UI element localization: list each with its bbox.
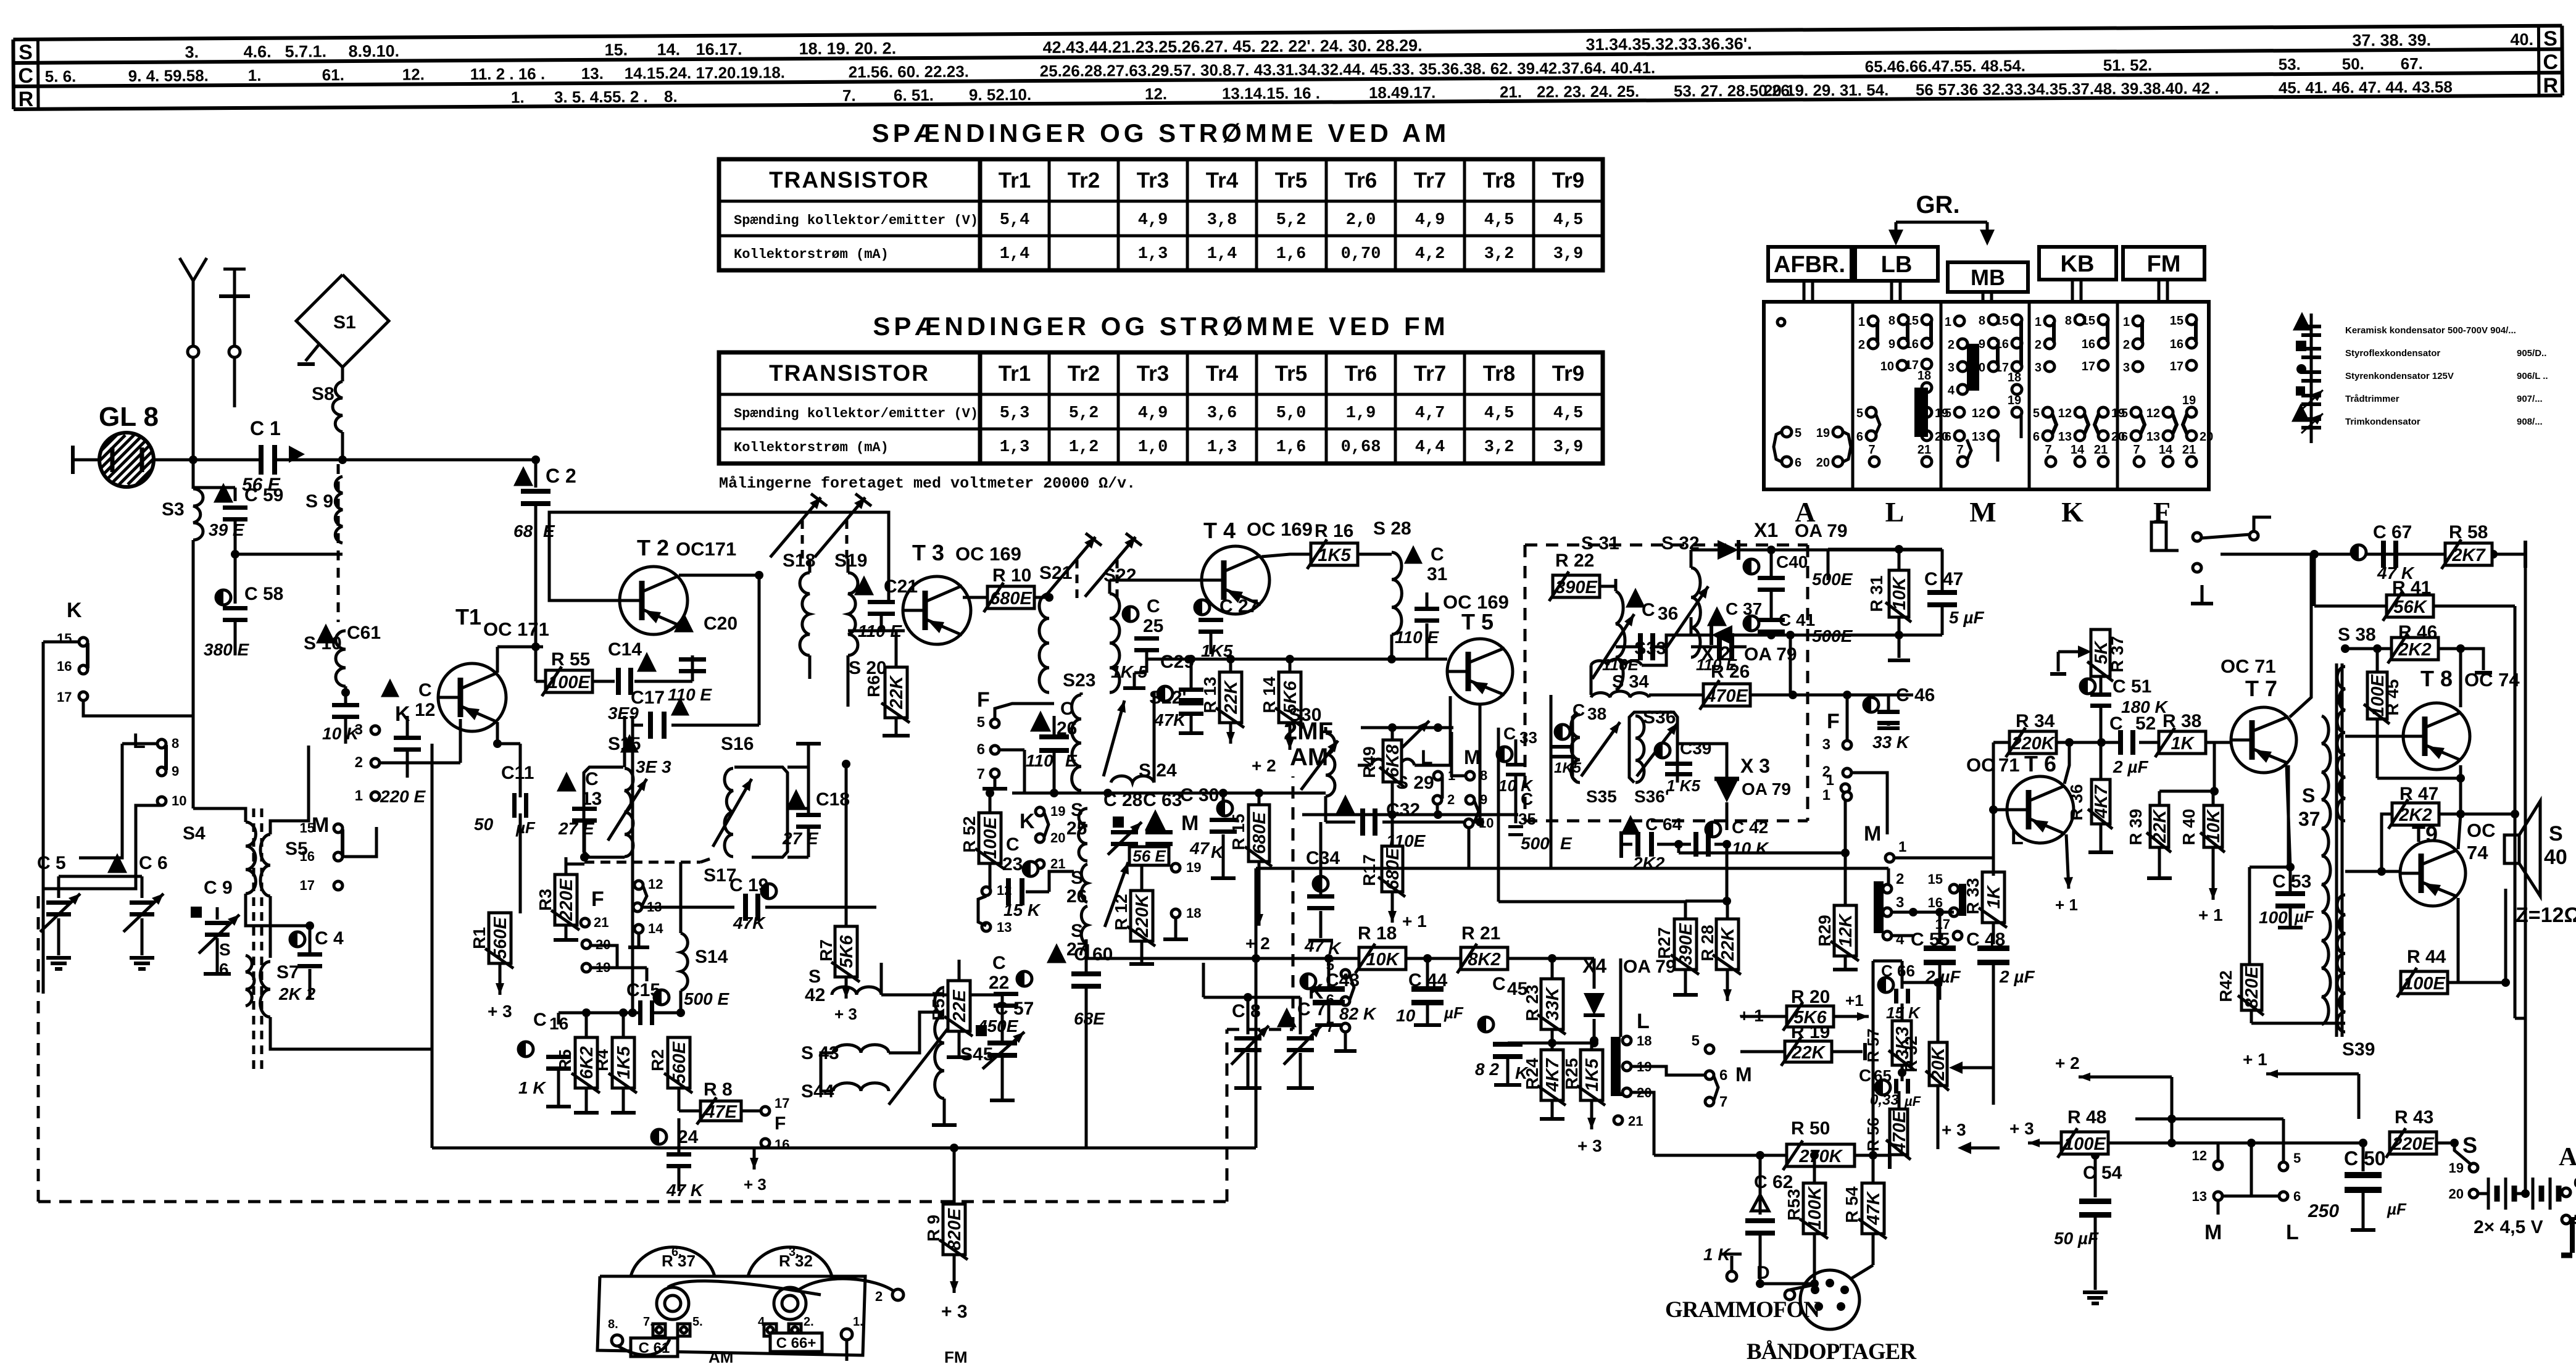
coil S7: [260, 962, 270, 1017]
T2 base wire from C14: [654, 680, 692, 683]
svg-text:6: 6: [2574, 1175, 2576, 1190]
svg-text:12: 12: [415, 700, 435, 720]
svg-text:AM: AM: [708, 1348, 733, 1364]
T2 collector wire right: [679, 574, 759, 577]
svg-text:Målingerne foretaget med voltm: Målingerne foretaget med voltmeter 20000…: [719, 475, 1136, 492]
svg-text:52: 52: [2135, 713, 2156, 734]
svg-text:0,33: 0,33: [1870, 1092, 1899, 1108]
svg-text:18.49.17.: 18.49.17.: [1369, 83, 1436, 102]
dashed core S9/S10: [337, 464, 340, 622]
svg-text:Trimkondensator: Trimkondensator: [2345, 417, 2420, 427]
svg-text:3: 3: [355, 721, 363, 738]
svg-text:220E: 220E: [557, 878, 576, 921]
capacitor C36: [1628, 591, 1643, 606]
svg-text:BÅNDOPTAGER: BÅNDOPTAGER: [1747, 1339, 1917, 1364]
transformer S37 core: [2335, 663, 2338, 1037]
svg-text:390E: 390E: [1676, 922, 1696, 965]
svg-text:30. 28.29.: 30. 28.29.: [1348, 36, 1422, 56]
svg-text:C: C: [2543, 51, 2558, 74]
jack symbol: [2201, 585, 2204, 602]
svg-text:68E: 68E: [1074, 1009, 1105, 1028]
svg-text:45: 45: [1507, 979, 1527, 999]
dashed link S15-S17: [584, 861, 700, 864]
svg-text:C 64: C 64: [1645, 815, 1682, 834]
tuning capacitor C6: [110, 857, 125, 871]
svg-text:15: 15: [1905, 314, 1919, 328]
wire C59-C58: [234, 521, 237, 604]
svg-text:C: C: [1147, 596, 1160, 617]
svg-text:GRAMMOFON: GRAMMOFON: [1665, 1297, 1820, 1323]
svg-text:40: 40: [2544, 846, 2567, 869]
T1 base wire: [380, 762, 460, 765]
bar left label cells: [36, 39, 40, 109]
svg-text:+ 1: + 1: [1402, 912, 1427, 931]
wire contact 4 right: [1892, 934, 1913, 937]
svg-text:3E 3: 3E 3: [636, 757, 671, 776]
svg-text:68: 68: [513, 521, 533, 541]
svg-text:C39: C39: [1680, 739, 1711, 758]
svg-text:22K: 22K: [1718, 926, 1738, 961]
svg-text:OC 71: OC 71: [2221, 655, 2276, 677]
svg-text:3,2: 3,2: [1484, 245, 1514, 264]
svg-text:500E: 500E: [1812, 570, 1853, 589]
contacts 5 6 bottom: [2279, 1162, 2288, 1171]
svg-text:1: 1: [1822, 787, 1830, 804]
svg-text:19: 19: [1816, 426, 1830, 440]
svg-text:S16: S16: [721, 734, 754, 754]
svg-text:R 12: R 12: [1111, 894, 1131, 930]
svg-text:C 51: C 51: [2113, 676, 2151, 697]
svg-text:12: 12: [2058, 407, 2072, 420]
svg-text:S: S: [19, 41, 33, 64]
svg-text:18: 18: [1917, 369, 1931, 383]
svg-text:27 E: 27 E: [782, 829, 819, 848]
svg-text:7: 7: [1868, 443, 1875, 457]
switch box stems: [1803, 281, 1806, 302]
wires bottom contact group: [2217, 1143, 2220, 1161]
capacitor C12: [383, 682, 397, 696]
svg-text:C 67: C 67: [2373, 522, 2412, 542]
svg-text:MB: MB: [1971, 265, 2005, 290]
svg-text:3,8: 3,8: [1207, 211, 1237, 230]
svg-text:R 20: R 20: [1791, 987, 1830, 1007]
svg-text:22. 23. 24. 25.: 22. 23. 24. 25.: [1537, 82, 1639, 101]
svg-text:13: 13: [2058, 430, 2072, 444]
svg-text:100: 100: [2259, 908, 2288, 927]
svg-text:13: 13: [997, 920, 1012, 935]
svg-text:Tr1: Tr1: [999, 168, 1031, 193]
svg-text:C 59: C 59: [244, 485, 283, 505]
svg-text:C 53: C 53: [2272, 871, 2311, 892]
svg-text:13.: 13.: [581, 64, 604, 83]
wire speaker riser: [2514, 606, 2517, 814]
svg-text:R 32: R 32: [1901, 1036, 1921, 1072]
svg-text:FM: FM: [2147, 251, 2181, 277]
svg-text:17: 17: [775, 1095, 789, 1111]
svg-text:C 30: C 30: [1180, 785, 1219, 805]
vertical bus x1025: [631, 716, 634, 1013]
svg-text:31.34.35.32.33.36.36'.: 31.34.35.32.33.36.36'.: [1585, 35, 1751, 54]
svg-text:4,4: 4,4: [1415, 438, 1445, 457]
svg-text:1,0: 1,0: [1138, 438, 1168, 457]
svg-text:R 10: R 10: [992, 565, 1031, 586]
svg-text:12: 12: [997, 883, 1012, 898]
svg-text:14.: 14.: [657, 40, 680, 59]
svg-text:Tr7: Tr7: [1414, 362, 1447, 386]
svg-text:907/...: 907/...: [2517, 394, 2543, 404]
svg-text:C 58: C 58: [244, 584, 283, 604]
svg-text:37. 38. 39.: 37. 38. 39.: [2352, 31, 2431, 50]
svg-text:820E: 820E: [2242, 965, 2262, 1008]
transistor T3: [903, 576, 971, 644]
svg-text:220K: 220K: [1132, 893, 1152, 937]
svg-text:4,5: 4,5: [1553, 211, 1584, 230]
svg-text:10K: 10K: [1890, 576, 1909, 610]
wire S3 down: [192, 540, 195, 808]
svg-text:M: M: [1969, 496, 1996, 528]
wire top bus right section: [2221, 553, 2493, 556]
bar right label cells: [2537, 26, 2541, 96]
svg-text:13: 13: [2192, 1189, 2207, 1204]
svg-text:1: 1: [1945, 315, 1951, 329]
pot shafts: [657, 1287, 689, 1319]
svg-text:18. 19. 20. 2.: 18. 19. 20. 2.: [799, 39, 896, 58]
wire down from T1 emitter: [519, 744, 522, 797]
svg-text:6K8: 6K8: [1383, 744, 1403, 778]
svg-text:25: 25: [1066, 818, 1087, 839]
svg-text:C: C: [418, 680, 432, 700]
svg-text:22E: 22E: [950, 989, 970, 1023]
svg-text:37: 37: [2298, 808, 2320, 830]
svg-text:100E: 100E: [981, 816, 1000, 858]
svg-text:26: 26: [1066, 886, 1087, 907]
battery cells: [2478, 1192, 2487, 1195]
svg-text:220K: 220K: [2011, 734, 2055, 754]
switch section dividers: [1851, 302, 1855, 489]
svg-text:5,4: 5,4: [1000, 211, 1030, 230]
svg-text:R 54: R 54: [1842, 1186, 1861, 1223]
svg-text:5: 5: [2293, 1150, 2301, 1166]
svg-text:S19: S19: [834, 551, 867, 571]
svg-text:11. 2 . 16 .: 11. 2 . 16 .: [470, 64, 546, 83]
svg-text:R: R: [2543, 74, 2559, 98]
svg-text:1: 1: [2035, 315, 2042, 329]
svg-text:560E: 560E: [491, 916, 510, 958]
svg-text:R 50: R 50: [1791, 1118, 1830, 1139]
svg-text:4.: 4.: [758, 1315, 768, 1329]
svg-text:5: 5: [2121, 407, 2128, 420]
section M contacts: [1955, 316, 1964, 326]
wire long bottom bus: [432, 1147, 1256, 1150]
svg-text:14.15.24. 17.20.19.18.: 14.15.24. 17.20.19.18.: [625, 63, 785, 82]
svg-text:1,6: 1,6: [1276, 438, 1307, 457]
svg-text:17: 17: [57, 689, 72, 705]
svg-text:S: S: [2302, 784, 2315, 807]
svg-text:5K6: 5K6: [1793, 1008, 1827, 1028]
svg-text:R 55: R 55: [551, 649, 590, 670]
svg-text:2 µF: 2 µF: [1999, 967, 2035, 986]
svg-text:25.26.28.27.63.29.57. 30.8.7.: 25.26.28.27.63.29.57. 30.8.7. 43.31.34.3…: [1040, 59, 1656, 80]
svg-text:270K: 270K: [1798, 1147, 1843, 1166]
svg-text:L: L: [2286, 1221, 2299, 1244]
svg-text:R 16: R 16: [1315, 521, 1353, 541]
pot wires: [668, 1281, 821, 1295]
svg-text:8: 8: [172, 736, 179, 751]
svg-text:SPÆNDINGER OG STRØMME VED: SPÆNDINGER OG STRØMME VED AM: [872, 118, 1450, 148]
svg-text:20: 20: [1050, 830, 1065, 846]
svg-text:L: L: [1885, 496, 1905, 528]
baandoptager DIN socket: [1800, 1270, 1859, 1329]
svg-text:E: E: [1560, 834, 1573, 853]
svg-text:R1: R1: [470, 927, 489, 949]
svg-text:0,68: 0,68: [1341, 438, 1381, 457]
svg-text:+ 1: + 1: [2243, 1050, 2267, 1069]
svg-text:T 8: T 8: [2420, 666, 2453, 691]
svg-text:5K6: 5K6: [837, 935, 857, 968]
svg-text:D: D: [1756, 1263, 1770, 1283]
svg-text:22K: 22K: [887, 675, 907, 709]
svg-text:14: 14: [648, 921, 663, 936]
svg-text:OC 169: OC 169: [1247, 518, 1313, 540]
GR bracket with arrows: [1895, 222, 1898, 241]
T6 emitter arrow: [2066, 834, 2069, 889]
wire S16 to dashed: [700, 858, 713, 862]
contact 18 mid: [1171, 909, 1180, 918]
svg-text:1.: 1.: [853, 1315, 863, 1329]
coil S18: [801, 520, 804, 560]
capacitor C37: [1710, 610, 1724, 625]
svg-text:F: F: [977, 688, 990, 712]
svg-text:6: 6: [2033, 430, 2040, 444]
rail R39 R40: [2159, 790, 2214, 793]
wire K to C8 bus: [1248, 996, 1300, 999]
svg-text:SPÆNDINGER OG STRØMME VED: SPÆNDINGER OG STRØMME VED FM: [873, 312, 1448, 341]
transistor T7: [2231, 707, 2296, 773]
svg-text:100E: 100E: [2064, 1134, 2106, 1154]
svg-text:OC 169: OC 169: [1443, 591, 1509, 613]
svg-text:680E: 680E: [1250, 811, 1269, 854]
svg-text:C 9: C 9: [204, 878, 233, 898]
svg-text:GR.: GR.: [1916, 191, 1959, 218]
contacts 12 13 bottom: [2214, 1161, 2222, 1170]
svg-text:82 K: 82 K: [1339, 1004, 1377, 1023]
svg-text:50.: 50.: [2342, 54, 2364, 73]
table row lines: [719, 393, 1603, 396]
pot C61 box: [631, 1338, 678, 1357]
svg-text:2K2: 2K2: [2398, 640, 2431, 660]
svg-text:C 46: C 46: [1896, 685, 1935, 705]
svg-text:C: C: [1503, 724, 1516, 743]
svg-text:Tr8: Tr8: [1483, 362, 1516, 386]
svg-text:10: 10: [1880, 360, 1894, 373]
svg-text:Tr5: Tr5: [1275, 362, 1308, 386]
svg-text:X1: X1: [1754, 519, 1778, 541]
svg-text:5 µF: 5 µF: [1949, 608, 1984, 627]
svg-text:4,9: 4,9: [1138, 404, 1168, 423]
svg-text:Tr3: Tr3: [1137, 362, 1170, 386]
contact 19 mid: [1171, 863, 1180, 872]
svg-text:47E: 47E: [704, 1102, 737, 1122]
svg-text:220E: 220E: [2391, 1134, 2435, 1154]
svg-text:27 E: 27 E: [558, 819, 595, 838]
svg-text:X 3: X 3: [1740, 755, 1770, 777]
svg-text:FM: FM: [944, 1348, 968, 1364]
svg-text:F: F: [1827, 710, 1840, 733]
wire C59 node to S9: [235, 553, 343, 556]
svg-text:C18: C18: [816, 789, 850, 810]
svg-text:12: 12: [2146, 407, 2160, 420]
svg-text:+ 3: + 3: [2009, 1119, 2034, 1138]
svg-text:3: 3: [2035, 361, 2042, 375]
svg-text:S1: S1: [333, 312, 356, 333]
svg-text:C: C: [585, 769, 599, 789]
main dashed box FM section: [37, 896, 40, 1202]
svg-text:5: 5: [1856, 407, 1863, 420]
svg-text:50: 50: [474, 815, 494, 834]
svg-text:OA 79: OA 79: [1742, 779, 1791, 799]
svg-text:4,9: 4,9: [1415, 211, 1445, 230]
antenna terminal: [188, 346, 199, 357]
svg-text:19: 19: [2449, 1160, 2464, 1176]
left area wiring: [83, 700, 193, 716]
svg-text:AM: AM: [1290, 744, 1328, 771]
svg-text:5: 5: [977, 714, 985, 731]
svg-text:+1: +1: [1845, 991, 1864, 1010]
svg-text:L: L: [1637, 1010, 1650, 1033]
table frame: [719, 352, 1603, 463]
svg-text:+ 2: + 2: [2055, 1053, 2080, 1073]
svg-text:Tr6: Tr6: [1345, 168, 1377, 193]
svg-text:22K: 22K: [1221, 679, 1241, 714]
svg-text:C: C: [1060, 699, 1074, 719]
svg-text:C61: C61: [347, 623, 381, 643]
capacitor C20: [676, 616, 691, 631]
svg-text:M: M: [1181, 812, 1199, 835]
capacitor C2: [516, 470, 531, 484]
svg-text:1 K: 1 K: [518, 1078, 546, 1097]
svg-text:OC 169: OC 169: [955, 543, 1021, 565]
svg-text:15: 15: [2170, 314, 2183, 328]
svg-text:21: 21: [2182, 443, 2196, 457]
arrow +3 bottom left: [753, 1149, 756, 1170]
svg-text:6: 6: [1719, 1067, 1727, 1084]
resistor R37 5K: [2091, 629, 2110, 676]
svg-text:47 K: 47 K: [666, 1181, 704, 1200]
svg-text:µF: µF: [1444, 1003, 1464, 1022]
wire S10 to C61 node: [344, 686, 347, 704]
svg-text:470E: 470E: [1705, 686, 1748, 706]
legend keramisk kondensator symbol: [2295, 315, 2309, 329]
coil S8: [341, 367, 344, 381]
svg-text:A: A: [2559, 1143, 2576, 1171]
svg-text:S35: S35: [1586, 787, 1617, 806]
svg-text:16: 16: [1995, 338, 2009, 351]
bar row separator C/R: [14, 73, 2562, 86]
capacitor C51: [2080, 679, 2095, 694]
svg-text:R 31: R 31: [1867, 575, 1886, 612]
svg-text:1K: 1K: [2171, 734, 2195, 754]
S7 wires to right: [270, 744, 432, 1049]
transistor T9: [2400, 841, 2466, 906]
svg-text:C 60: C 60: [1074, 944, 1113, 965]
contact 17 left bottom: [761, 1107, 770, 1115]
svg-text:1,6: 1,6: [1276, 245, 1307, 264]
svg-text:10: 10: [172, 793, 186, 808]
svg-text:13: 13: [2146, 430, 2160, 444]
section A contacts: [1777, 318, 1785, 326]
svg-text:R17: R17: [1360, 854, 1379, 886]
svg-text:R53: R53: [1784, 1189, 1803, 1220]
svg-text:AFBR.: AFBR.: [1774, 252, 1845, 278]
T7 wires: [2213, 742, 2216, 791]
svg-text:S17: S17: [704, 865, 736, 886]
svg-text:3,2: 3,2: [1484, 438, 1514, 457]
svg-text:25: 25: [1143, 616, 1163, 636]
T9 wires: [2345, 870, 2401, 873]
capacitor C27: [1195, 600, 1210, 615]
pot terminals: [653, 1324, 665, 1336]
svg-text:OC: OC: [1966, 754, 1995, 776]
svg-text:Tr6: Tr6: [1345, 362, 1377, 386]
svg-text:1K5: 1K5: [1318, 546, 1351, 565]
svg-text:Styrenkondensator 125V: Styrenkondensator 125V: [2345, 371, 2454, 381]
svg-text:Keramisk kondensator 500-700V: Keramisk kondensator 500-700V 904/...: [2345, 325, 2516, 336]
svg-text:8: 8: [1480, 768, 1487, 783]
svg-text:12K: 12K: [1836, 913, 1856, 947]
svg-text:1K5: 1K5: [614, 1046, 634, 1079]
svg-text:R3: R3: [536, 889, 555, 911]
svg-text:S: S: [2543, 27, 2557, 51]
svg-text:4K7: 4K7: [2092, 784, 2111, 819]
svg-text:220 E: 220 E: [380, 787, 426, 806]
svg-text:R27: R27: [1655, 927, 1674, 958]
svg-text:C 8: C 8: [1232, 1001, 1261, 1021]
svg-text:C: C: [992, 953, 1006, 973]
svg-text:1K5: 1K5: [1582, 1058, 1602, 1092]
speaker switch contacts: [2193, 533, 2201, 541]
svg-text:T9: T9: [2412, 821, 2438, 847]
svg-text:KB: KB: [2061, 251, 2095, 277]
svg-text:C17: C17: [631, 688, 665, 708]
svg-text:µF: µF: [515, 818, 536, 837]
svg-text:1: 1: [2123, 315, 2130, 329]
legend trimkondensator symbol: [2294, 407, 2308, 420]
svg-text:24: 24: [678, 1127, 699, 1147]
transistor T5: [1447, 639, 1513, 704]
svg-text:2: 2: [2123, 338, 2130, 352]
svg-text:R 26: R 26: [1711, 662, 1750, 682]
coil S6: [246, 955, 254, 1006]
svg-text:C 37: C 37: [1726, 599, 1762, 618]
svg-text:S14: S14: [695, 947, 728, 967]
svg-text:16: 16: [775, 1137, 789, 1152]
svg-text:50 µF: 50 µF: [2054, 1229, 2099, 1248]
svg-text:S 9: S 9: [305, 491, 333, 512]
svg-text:19: 19: [2182, 394, 2196, 407]
switch main box: [1764, 302, 2209, 489]
svg-text:Tr5: Tr5: [1275, 168, 1308, 193]
svg-text:Tr2: Tr2: [1068, 362, 1100, 386]
svg-text:T 4: T 4: [1203, 518, 1236, 543]
svg-text:4,5: 4,5: [1553, 404, 1584, 423]
transistor T2: [620, 567, 688, 634]
wire R26 to C46: [1750, 694, 1888, 697]
svg-text:5,2: 5,2: [1069, 404, 1099, 423]
svg-text:14: 14: [2159, 443, 2173, 457]
svg-text:9: 9: [1888, 338, 1895, 351]
svg-text:1,3: 1,3: [1207, 438, 1237, 457]
svg-text:7: 7: [2133, 443, 2140, 457]
